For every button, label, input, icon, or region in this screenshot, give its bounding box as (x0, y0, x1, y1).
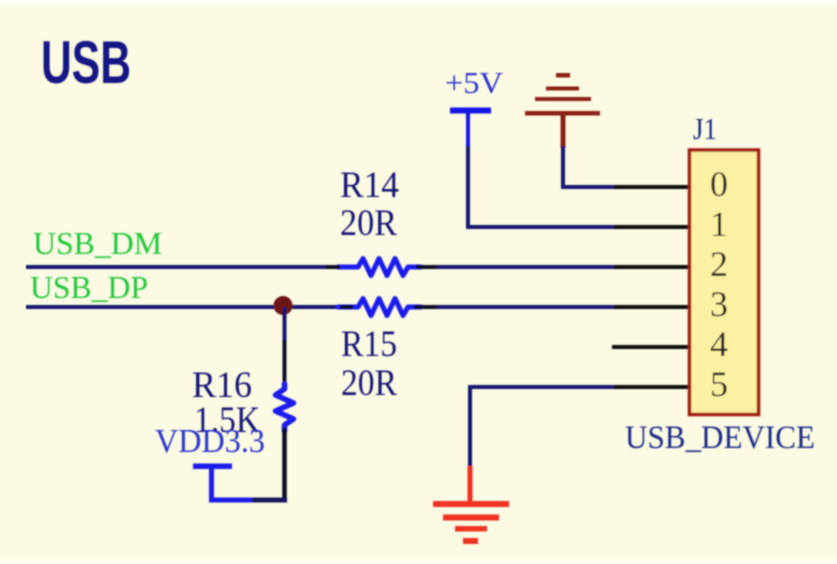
wire pin 5 down vertical (468, 385, 472, 468)
earth ground top bar3 (546, 87, 579, 91)
wire USB_DM left segment (26, 265, 341, 269)
svg-text:J1: J1 (693, 111, 717, 146)
resistor R16 (276, 384, 294, 431)
resistor R15 (338, 299, 421, 316)
wire ground to pin 0 horizontal (561, 185, 616, 189)
wire below R16 (282, 428, 287, 502)
pin 5 stub (614, 385, 688, 389)
wire pin 5 horizontal (468, 385, 616, 389)
svg-text:4: 4 (710, 324, 728, 364)
power port +5V stem (466, 110, 470, 148)
svg-text:0: 0 (710, 164, 728, 204)
wire USB_DM right segment (419, 265, 616, 269)
wire +5V down (466, 146, 470, 229)
resistor R14 (338, 259, 421, 276)
svg-text:USB_DEVICE: USB_DEVICE (625, 420, 815, 456)
svg-text:USB_DM: USB_DM (33, 225, 162, 261)
wire junction to R16 (283, 307, 287, 390)
earth ground top bar2 (535, 97, 591, 101)
ground bottom bar3 (455, 526, 487, 532)
wire dark segment right of R14 (416, 265, 437, 269)
ground bottom bar2 (443, 515, 499, 521)
power port VDD3.3 bar (193, 464, 232, 470)
ground bottom bar1 (433, 501, 509, 507)
ground bottom bar4 (463, 538, 478, 544)
pin 3 stub (614, 305, 688, 309)
top light strip (0, 0, 837, 6)
power port VDD3.3 stem (209, 466, 214, 500)
wire bottom horizontal to VDD3.3 blue part (209, 498, 252, 503)
earth ground top bar4 (556, 73, 570, 78)
svg-text:3: 3 (710, 284, 728, 324)
svg-text:20R: 20R (340, 203, 397, 244)
wire dark segment above R16 (283, 340, 287, 388)
svg-text:1: 1 (710, 204, 728, 244)
wire dark segment right of R15 (414, 305, 437, 309)
bottom light strip (0, 557, 837, 564)
earth ground top stem (561, 114, 566, 148)
svg-text:2: 2 (710, 244, 728, 284)
svg-text:20R: 20R (341, 363, 397, 404)
power port +5V bar (450, 108, 491, 114)
svg-text:VDD3.3: VDD3.3 (155, 423, 265, 460)
connector J1 body (690, 150, 759, 415)
pin 2 stub (614, 265, 688, 269)
wire dark segment left of R14 (326, 265, 340, 269)
earth ground top bar1 (525, 111, 600, 116)
wire +5V to pin 1 (466, 225, 616, 229)
svg-text:5: 5 (710, 364, 728, 404)
wire dark segment left of R15 (340, 305, 353, 309)
svg-text:USB_DP: USB_DP (30, 269, 148, 305)
svg-text:USB: USB (41, 29, 131, 96)
pin 4 stub (612, 345, 688, 349)
wire ground to pin 0 vertical (561, 146, 565, 189)
pin 0 stub (614, 185, 688, 189)
wire bottom horizontal to VDD3.3 navy part (252, 498, 287, 503)
svg-text:+5V: +5V (445, 65, 504, 100)
ground bottom stem (468, 466, 473, 502)
svg-text:R14: R14 (340, 165, 399, 206)
wire USB_DP right segment (419, 305, 616, 309)
wire USB_DP left segment (26, 305, 352, 309)
svg-text:R15: R15 (341, 324, 397, 365)
pin 1 stub (614, 225, 688, 229)
junction node on USB_DP (274, 296, 293, 315)
